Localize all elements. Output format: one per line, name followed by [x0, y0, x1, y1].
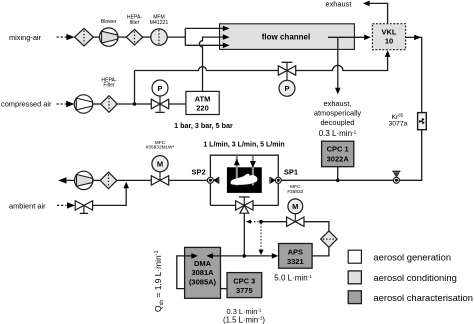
svg-text:CPC 3: CPC 3 [233, 276, 255, 285]
node manifold [184, 28, 186, 45]
wire ambient line to junction riser [93, 188, 127, 206]
svg-text:3022A: 3022A [327, 154, 350, 163]
svg-text:10: 10 [385, 36, 393, 45]
svg-text:M41221: M41221 [150, 20, 169, 26]
svg-text:3081A: 3081A [191, 268, 214, 277]
wire ambient dashed source [57, 204, 67, 206]
wire SP1 to right port [281, 179, 393, 181]
CPC 1 3022A box [322, 141, 354, 167]
svg-text:ATM: ATM [195, 95, 211, 104]
sample port (right, with funnel valve) [392, 170, 400, 172]
svg-text:atmosperically: atmosperically [314, 109, 362, 118]
filter F1 (mixing air inlet filter) [75, 28, 94, 46]
wire mixing-air dashed source [57, 36, 68, 38]
svg-text:Blower: Blower [101, 19, 117, 25]
svg-text:220: 220 [196, 103, 209, 112]
wire exhaust (atmospherically decoupled) drop [337, 37, 339, 88]
legend box aerosol generation [348, 250, 361, 263]
APS 3321 box [279, 244, 313, 269]
wire manifold bottom branch [185, 44, 224, 46]
svg-text:(1.5 L·min-1): (1.5 L·min-1) [223, 315, 265, 324]
valve V2 (on bypass line, with T handle) [286, 62, 288, 70]
Kr-85 neutralizer 3077a [418, 113, 427, 130]
legend box aerosol characterisation [348, 291, 361, 304]
valve V3 (ambient inlet) [75, 201, 84, 210]
pressure gauge P below V2 [286, 71, 288, 81]
svg-text:1 L/min, 3 L/min, 5 L/min: 1 L/min, 3 L/min, 5 L/min [203, 141, 284, 148]
svg-text:Qsh = 1.9 L·min-1: Qsh = 1.9 L·min-1 [153, 251, 165, 312]
wire compressor to HEPA [93, 103, 101, 105]
DMA 3081A box [185, 247, 221, 298]
filter F5 (before APS) [321, 231, 337, 247]
wire valve to SP2 [169, 179, 208, 181]
svg-text:aerosol conditioning: aerosol conditioning [373, 272, 456, 283]
valve V6 (MFC valve) [287, 217, 296, 226]
svg-text:Filter: Filter [103, 83, 115, 89]
chamber flow arrow up [236, 156, 238, 186]
branch to MFC/APS with arrow [246, 220, 251, 224]
valve V1 (pressure regulator) [151, 99, 160, 108]
valve V5 (3-way under chamber) [243, 197, 245, 205]
chamber flow arrow down [252, 156, 254, 186]
CPC 3 3775 box [227, 273, 262, 298]
wire MFM to manifold [167, 36, 185, 38]
svg-text:M: M [157, 160, 163, 169]
svg-text:CPC 1: CPC 1 [327, 145, 349, 154]
wire HEPA to MFM [143, 36, 151, 38]
wire V1 to ATM [169, 103, 186, 105]
svg-text:APS: APS [288, 247, 303, 256]
svg-text:M: M [292, 202, 298, 211]
svg-text:SP2: SP2 [192, 168, 206, 177]
wire manifold top branch [185, 27, 224, 29]
compressor P1 [76, 98, 92, 110]
svg-text:decoupled: decoupled [320, 118, 354, 127]
svg-text:ambient air: ambient air [9, 201, 46, 210]
svg-text:3321: 3321 [287, 257, 304, 266]
VKL 10 box [372, 24, 405, 50]
svg-text:(3085A): (3085A) [189, 277, 217, 286]
ATM 220 box [186, 91, 219, 114]
wire analyser bus [213, 255, 273, 257]
vent below V1 [159, 104, 161, 112]
svg-text:SP1: SP1 [284, 168, 298, 177]
wire bypass line to VKL bottom (hops over ATM riser and exhaust drop) [135, 57, 388, 71]
svg-text:exhaust: exhaust [326, 0, 352, 8]
svg-text:exhaust,: exhaust, [324, 99, 352, 108]
valve V4 (MFC valve) [151, 176, 160, 185]
wire pump to filter [93, 179, 100, 181]
svg-text:DMA: DMA [194, 259, 212, 268]
wire DMA to CPC3 [221, 288, 228, 290]
svg-text:aerosol generation: aerosol generation [373, 252, 451, 263]
flow channel box [220, 24, 355, 50]
wire test-section loop [210, 155, 278, 205]
svg-text:0.3 L·min-1: 0.3 L·min-1 [319, 129, 357, 138]
svg-text:P: P [284, 84, 289, 93]
svg-text:mixing-air: mixing-air [9, 33, 42, 42]
svg-text:flow channel: flow channel [262, 33, 310, 42]
svg-text:aerosol characterisation: aerosol characterisation [373, 292, 473, 303]
wire VKL top exhaust [370, 3, 388, 23]
wire F1 to blower [93, 36, 99, 38]
svg-text:3775: 3775 [236, 286, 253, 295]
wire left exhaust arrow [65, 179, 75, 181]
wire CPC1 to sampling line [337, 167, 339, 181]
wire HEPA to junction and valve [117, 103, 151, 105]
wire V5 down to analyser bus [243, 213, 245, 256]
wire sampling line inside flow channel to VKL [328, 36, 364, 38]
svg-text:5.0 L·min-1: 5.0 L·min-1 [274, 274, 312, 283]
pump P2 (ambient) [77, 175, 93, 187]
wire filter to MFC valve [117, 179, 152, 181]
wire V6 to filter to APS [304, 222, 329, 231]
wire middle branch from ATM (with hop over bottom branch) [199, 37, 224, 91]
wire filter down into APS [312, 247, 329, 256]
svg-text:P: P [157, 84, 162, 93]
test chamber (photo inset) [227, 167, 262, 193]
DMA sheath loop [177, 256, 185, 289]
wire compressed-air dashed source [57, 103, 67, 105]
legend box aerosol conditioning [348, 271, 361, 284]
wire Kr column lower part [399, 129, 422, 180]
chamber photo shoe [231, 174, 258, 185]
node junction J1 [133, 102, 137, 106]
pressure gauge P (on regulator) [152, 80, 168, 96]
svg-text:3077a: 3077a [389, 120, 408, 127]
dotted drop from branch to bus [260, 223, 262, 249]
wire VKL right to Kr column [406, 37, 422, 113]
svg-text:compressed air: compressed air [1, 100, 52, 109]
svg-text:filter: filter [130, 20, 140, 26]
svg-text:1 bar, 3 bar, 5 bar: 1 bar, 3 bar, 5 bar [174, 121, 233, 130]
svg-text:#35832: #35832 [287, 189, 303, 195]
filter F4 [100, 172, 117, 189]
svg-text:#35832MLW*: #35832MLW* [146, 145, 175, 151]
wire blower to HEPA filter [118, 36, 126, 38]
wire junction riser to bypass line [134, 71, 136, 105]
